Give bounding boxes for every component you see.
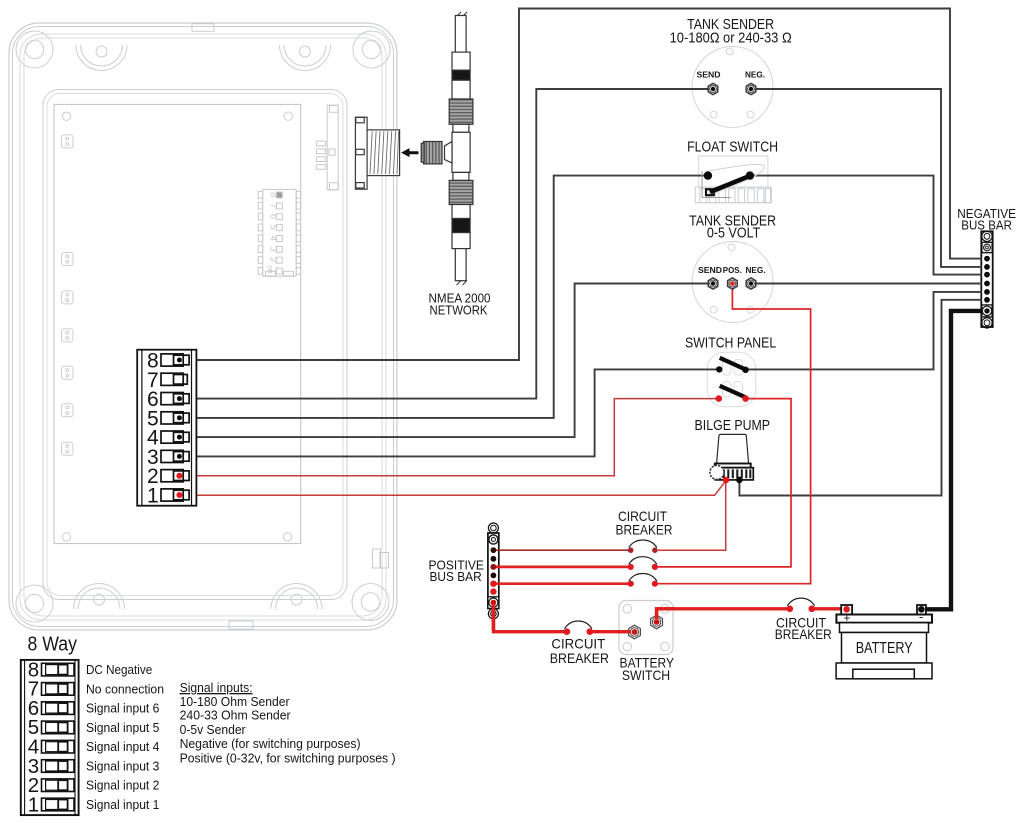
enclosure bottom mounting tab 2	[271, 584, 322, 609]
circuit breaker CB5	[787, 598, 816, 612]
enclosure inner mounting panel	[54, 104, 301, 543]
COMPONENTS-GROUP	[355, 12, 764, 285]
svg-text:CIRCUIT: CIRCUIT	[551, 637, 605, 652]
DIP switch S1	[258, 189, 301, 276]
wire terminal3 to switch panel	[180, 369, 717, 456]
wire positive bus to breaker3	[495, 582, 628, 585]
svg-text:6: 6	[268, 214, 279, 219]
svg-text:Positive (0-32v, for switching: Positive (0-32v, for switching purposes …	[180, 751, 396, 766]
circuit breaker CB4	[564, 621, 593, 635]
TB1 terminal 4	[147, 427, 189, 450]
wire switch panel toggle to breaker2	[658, 399, 791, 567]
battery B1	[836, 605, 932, 679]
wire positive bus to breaker2	[495, 566, 628, 569]
OVERLAY-WIRES	[493, 605, 675, 632]
wire battery negative thick cable	[925, 311, 984, 609]
wire bilge pump negative to negative bus	[739, 300, 982, 496]
svg-text:NEG.: NEG.	[746, 266, 766, 275]
NMEA threaded port on enclosure	[355, 117, 399, 189]
enclosure lid inner frame	[43, 90, 347, 600]
wire terminal1 to bilge pump positive	[180, 481, 726, 496]
svg-text:SEND: SEND	[698, 266, 722, 275]
wire 0-5V sender POS to breaker3	[658, 285, 811, 584]
switch panel top toggle	[716, 358, 749, 373]
enclosure top mounting tab 2	[280, 45, 331, 71]
svg-text:5: 5	[268, 225, 279, 230]
wire battery switch left terminal stub over body	[618, 630, 631, 633]
switch panel bottom toggle	[716, 386, 749, 402]
TB1 terminal 7	[147, 369, 187, 392]
TB1 terminal 6	[147, 388, 189, 411]
svg-text:BREAKER: BREAKER	[550, 651, 609, 666]
arrow pointing to port	[401, 148, 419, 157]
svg-text:Signal inputs:: Signal inputs:	[180, 680, 253, 695]
panel cable clip 7	[62, 442, 74, 455]
svg-text:BUS BAR: BUS BAR	[430, 570, 482, 584]
panel cable clip 2	[62, 253, 74, 266]
panel cable clip 5	[62, 366, 74, 379]
svg-text:BREAKER: BREAKER	[616, 522, 673, 537]
wire terminal8 to negative bus (DC negative)	[180, 9, 982, 361]
negative bus bar	[982, 231, 992, 328]
svg-text:+: +	[843, 613, 850, 625]
panel cable clip 3	[62, 291, 74, 304]
battery switch body	[488, 231, 993, 654]
positive bus bar	[488, 523, 499, 619]
circuit breaker CB2	[628, 557, 658, 570]
legend terminal 5	[28, 716, 74, 739]
enclosure corner screw boss bottom-right	[352, 584, 389, 621]
bilge pump body	[710, 434, 753, 480]
svg-text:POS.: POS.	[723, 266, 742, 275]
tank sender 1 SEND terminal	[708, 83, 718, 94]
terminal strip TB1	[137, 350, 196, 506]
wire battery switch terminal stub over body	[657, 609, 675, 619]
positive bus bar body	[488, 533, 499, 609]
svg-text:8: 8	[268, 192, 279, 197]
battery switch terminal 2	[651, 615, 663, 629]
legend strip (8 Way)	[21, 660, 79, 815]
circuit breaker CB3	[628, 574, 658, 587]
switch panel body	[707, 352, 756, 407]
svg-text:SWITCH PANEL: SWITCH PANEL	[685, 335, 776, 351]
float switch contacts and lever	[704, 171, 754, 195]
svg-text:4: 4	[268, 236, 279, 241]
battery positive stud	[843, 606, 850, 613]
enclosure side clip	[373, 549, 389, 568]
svg-text:Signal input 5: Signal input 5	[86, 720, 159, 735]
panel corner hole bottom-right	[283, 533, 291, 541]
tank sender 1 NEG terminal	[746, 83, 756, 94]
wire terminal2 to switch panel bottom toggle	[180, 399, 717, 476]
svg-text:10-180Ω or 240-33 Ω: 10-180Ω or 240-33 Ω	[670, 30, 792, 46]
tank sender 2 NEG terminal	[746, 278, 756, 289]
svg-text:DC Negative: DC Negative	[86, 662, 152, 677]
tank sender 2 POS terminal	[728, 278, 738, 289]
wire terminal5 to float switch	[180, 176, 706, 418]
wire positive bus to breaker4	[494, 604, 565, 632]
panel corner hole top-left	[62, 112, 70, 120]
wire breaker4 to battery switch	[593, 630, 635, 633]
legend terminal 4	[28, 736, 74, 759]
svg-text:Signal input 3: Signal input 3	[86, 759, 159, 774]
legend terminal 3	[28, 755, 74, 778]
WIRES-GROUP	[180, 9, 984, 632]
svg-text:1: 1	[147, 485, 159, 508]
TB1 terminal 5	[147, 407, 189, 430]
wire switch panel to negative bus	[748, 292, 983, 370]
legend terminal 2	[28, 774, 74, 797]
enclosure outer shell	[9, 23, 397, 630]
ENCLOSURE-GROUP	[9, 23, 397, 630]
svg-text:8 Way: 8 Way	[28, 633, 78, 656]
enclosure top notch	[192, 24, 214, 32]
enclosure lid groove	[20, 34, 386, 620]
tank sender 1 flange	[692, 47, 773, 128]
internal NMEA connector housing	[316, 105, 338, 190]
svg-text:0-5v Sender: 0-5v Sender	[180, 722, 247, 737]
TB1 terminal 8	[147, 350, 189, 373]
wire terminal6 to tank sender SEND	[180, 89, 711, 399]
tank sender 2 flange (0-5 volt)	[692, 242, 773, 323]
legend terminal 8	[28, 658, 74, 681]
svg-text:-: -	[919, 610, 923, 624]
TB1 terminal 3	[147, 446, 189, 469]
svg-text:on: on	[266, 265, 273, 273]
wire bilge pump positive to breaker1	[658, 481, 726, 550]
svg-text:240-33 Ohm Sender: 240-33 Ohm Sender	[180, 708, 292, 723]
wire float switch to negative bus	[752, 176, 983, 275]
battery negative stud	[918, 606, 925, 613]
tank sender 2 SEND terminal	[708, 278, 718, 289]
TB1 terminal 2	[147, 465, 189, 488]
panel corner hole bottom-left	[62, 533, 70, 541]
enclosure corner screw boss top-right	[353, 31, 390, 68]
circuit breaker CB1	[628, 540, 658, 553]
panel cable clip 4	[62, 329, 74, 342]
enclosure corner screw boss top-left	[16, 31, 53, 68]
svg-text:Signal input 2: Signal input 2	[86, 778, 159, 793]
svg-text:FLOAT SWITCH: FLOAT SWITCH	[687, 140, 778, 156]
svg-text:3: 3	[268, 246, 279, 251]
svg-text:7: 7	[268, 203, 279, 208]
svg-text:BUS BAR: BUS BAR	[961, 219, 1012, 233]
NMEA 2000 T-connector U-NMEA	[421, 12, 473, 285]
wire positive bus to breaker1	[495, 549, 628, 551]
svg-text:0-5 VOLT: 0-5 VOLT	[707, 226, 760, 242]
enclosure top mounting tab 1	[76, 45, 127, 71]
wire terminal4 to 0-5V sender SEND	[180, 284, 711, 438]
negative bus bar body	[981, 231, 992, 327]
svg-text:No connection: No connection	[86, 682, 164, 697]
battery switch terminal 1	[629, 625, 641, 639]
legend terminal 6	[28, 697, 74, 720]
svg-text:BATTERY: BATTERY	[856, 640, 913, 657]
svg-text:SWITCH: SWITCH	[622, 668, 670, 683]
wire positive bus bottom stub over terminal	[492, 605, 495, 631]
wire 0-5V sender NEG to negative bus	[753, 283, 982, 285]
panel cable clip 1	[62, 135, 74, 148]
svg-text:Signal input 1: Signal input 1	[86, 797, 159, 812]
svg-text:SEND: SEND	[697, 70, 721, 79]
svg-text:2: 2	[268, 257, 279, 262]
svg-text:Signal input 4: Signal input 4	[86, 739, 159, 754]
svg-text:Negative (for switching purpos: Negative (for switching purposes)	[180, 736, 361, 751]
enclosure bottom notch	[229, 621, 253, 629]
TB1 terminal 1	[147, 485, 189, 508]
wire tank sender NEG to negative bus	[753, 89, 982, 267]
legend terminal 1	[28, 793, 74, 816]
enclosure corner screw boss bottom-left	[16, 585, 53, 622]
wire battery switch to breaker5	[657, 609, 787, 620]
float switch body	[180, 9, 993, 655]
svg-text:1: 1	[28, 793, 39, 816]
enclosure bottom mounting tab 1	[74, 584, 125, 609]
legend terminal 7	[28, 678, 74, 701]
bilge pump positive terminal	[723, 477, 730, 484]
svg-text:Signal input 6: Signal input 6	[86, 701, 159, 716]
svg-text:BREAKER: BREAKER	[775, 627, 832, 642]
bilge pump negative terminal	[736, 477, 743, 484]
panel cable clip 6	[62, 404, 74, 417]
svg-text:10-180 Ohm Sender: 10-180 Ohm Sender	[180, 694, 291, 709]
svg-text:NEG.: NEG.	[745, 70, 765, 79]
wire breaker5 to battery positive	[815, 607, 846, 610]
svg-text:NETWORK: NETWORK	[430, 302, 488, 317]
svg-text:BILGE PUMP: BILGE PUMP	[695, 418, 771, 434]
panel corner hole top-right	[284, 112, 292, 120]
